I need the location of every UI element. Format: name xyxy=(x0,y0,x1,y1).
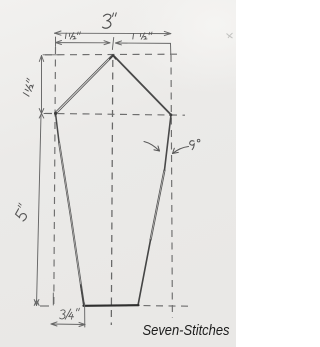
half dimension line (1 1/2 + 1 1/2) xyxy=(56,37,171,55)
pattern outline: right slant apex to shoulder xyxy=(113,55,171,115)
right curved pointer xyxy=(173,147,189,154)
1 1/2 left handwritten label xyxy=(65,32,80,39)
svg-text:Seven-Stitches: Seven-Stitches xyxy=(143,322,230,339)
rotated 1 1/2 handwritten label xyxy=(21,78,35,96)
shoulder level dashed horizontal xyxy=(45,113,185,115)
3 inch dimension line xyxy=(55,31,171,36)
left shoulder junction blob xyxy=(54,112,57,115)
9 degree handwritten annotation xyxy=(190,139,200,149)
3 inch handwritten label xyxy=(103,13,117,28)
left vertical 1 1/2 dimension xyxy=(39,55,58,118)
faint pen mark top right xyxy=(227,33,233,38)
pattern outline: right side upper (dark) xyxy=(165,115,172,170)
right shoulder junction blob xyxy=(169,113,172,116)
pattern outline: right side lower (dark) xyxy=(138,240,151,305)
left vertical 5 inch dimension xyxy=(34,115,41,306)
bottom level dashed horizontal left stub xyxy=(40,305,49,307)
pattern outline: left side (double pencil stroke) xyxy=(58,142,84,306)
paper background xyxy=(0,0,236,347)
pattern outline: right side mid (double pencil stroke) xyxy=(150,170,165,240)
pattern outline: bottom edge xyxy=(84,304,139,307)
center dashed vertical (fold line) xyxy=(111,60,113,325)
pattern outline: left side upper (dark) xyxy=(56,113,60,142)
left curved pointer xyxy=(144,142,160,152)
rotated 5 handwritten label xyxy=(13,203,31,222)
1 1/2 right handwritten label xyxy=(133,32,152,39)
3/4 handwritten label xyxy=(60,308,80,319)
pattern outline: left slant apex to shoulder (double pencil stroke) xyxy=(55,55,114,114)
bottom 3/4 inch dimension xyxy=(51,293,85,327)
apex level dashed horizontal xyxy=(45,53,177,56)
left dashed vertical xyxy=(54,47,56,305)
pattern outline: left side lower (dark near corner) xyxy=(81,285,84,306)
bottom level dashed horizontal right xyxy=(144,305,189,308)
right dashed vertical xyxy=(171,55,172,318)
apex arrow mark xyxy=(110,56,116,59)
